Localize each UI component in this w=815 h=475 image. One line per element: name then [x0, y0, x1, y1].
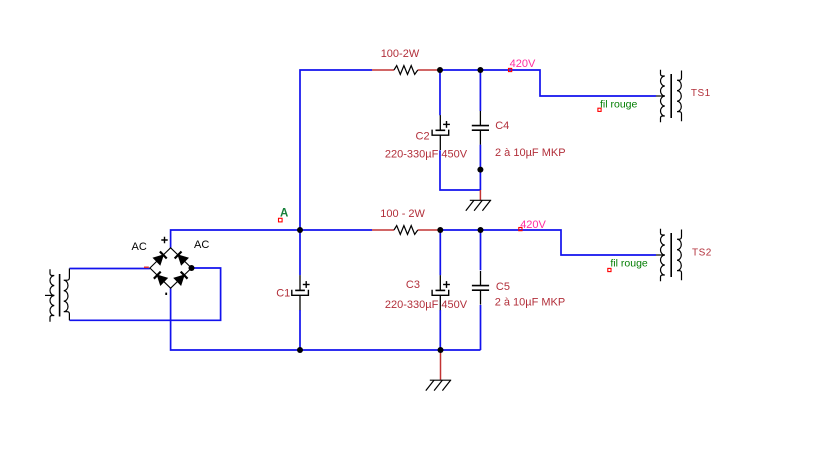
svg-text:2 à 10µF MKP: 2 à 10µF MKP: [495, 297, 566, 309]
svg-text:100-2W: 100-2W: [381, 48, 420, 60]
svg-text:C1: C1: [276, 288, 290, 300]
svg-text:420V: 420V: [520, 219, 546, 231]
svg-text:C2: C2: [416, 130, 430, 142]
svg-text:fil rouge: fil rouge: [600, 99, 638, 111]
svg-text:220-330µF 450V: 220-330µF 450V: [385, 149, 468, 161]
svg-text:AC: AC: [132, 241, 147, 253]
svg-text:2 à 10µF MKP: 2 à 10µF MKP: [495, 147, 566, 159]
svg-text:TS1: TS1: [691, 88, 711, 99]
svg-text:C4: C4: [495, 120, 509, 132]
svg-text:fil rouge: fil rouge: [610, 258, 648, 270]
svg-text:C3: C3: [406, 279, 420, 291]
svg-text:220-330µF 450V: 220-330µF 450V: [385, 299, 468, 311]
svg-text:A: A: [280, 208, 288, 220]
svg-text:TS2: TS2: [692, 248, 712, 259]
svg-text:420V: 420V: [510, 58, 536, 70]
svg-text:AC: AC: [194, 239, 209, 251]
svg-text:100 - 2W: 100 - 2W: [380, 208, 425, 220]
svg-text:C5: C5: [496, 281, 510, 293]
